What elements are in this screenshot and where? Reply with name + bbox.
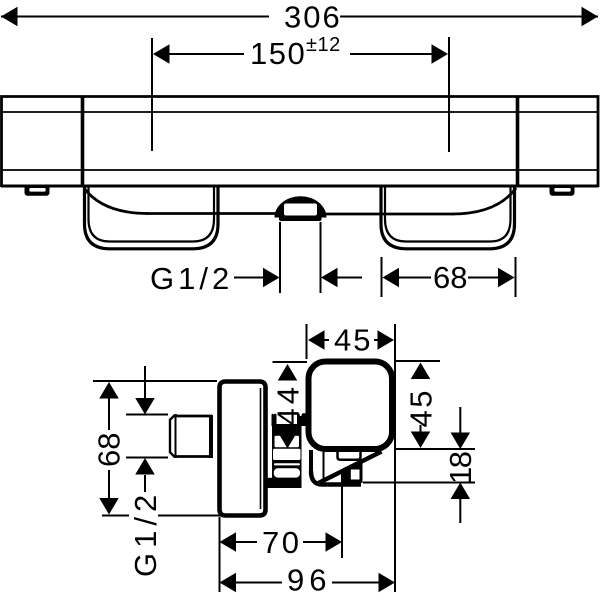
valve nut right column [297,413,307,426]
stub thin band [274,463,300,465]
hose outlet stub [272,424,302,488]
union nut left outer [85,187,219,249]
svg-text:68: 68 [92,433,127,467]
escutcheon [220,382,266,516]
svg-text:45: 45 [404,388,439,427]
svg-text:G1/2: G1/2 [128,490,163,577]
dim 68 front [383,268,515,288]
dim 96 [220,573,396,593]
union nut right inner [385,187,511,242]
under-body line right [325,213,454,216]
divider right end cap [516,97,520,187]
extension line wall [219,517,221,592]
grip bottom bar [311,471,361,485]
nipple body [175,416,212,457]
union nut left inner [89,187,215,242]
stub window 2 [273,449,301,460]
dim 70 [220,532,343,552]
dim G1/2 front leader [234,268,362,288]
svg-text:306: 306 [284,0,342,35]
nipple flange [209,415,213,458]
extension line union right right [515,257,517,297]
body inner line upper [1,111,598,113]
extension line escutcheon top [93,380,217,382]
escutcheon face line [260,388,262,509]
outlet bar [279,216,322,222]
hose outlet stub foot [268,478,274,488]
extension line 45 top left [306,324,308,359]
svg-text:68: 68 [433,260,467,295]
grip white base [309,450,384,487]
dim 45 right [411,363,431,449]
extension line union right left [381,257,383,297]
stub window 1 [275,436,300,447]
extension line escutcheon bottom [102,515,129,517]
extension line left 150 [151,38,153,151]
extension line 70 [341,486,343,558]
extension line nipple top [126,414,168,416]
dim 306 line [1,7,598,27]
dim 68 side [99,382,119,515]
svg-text:70: 70 [262,525,301,560]
grip diagonal [319,452,382,484]
extension line nipple bottom [126,457,168,459]
tab right clip [550,185,575,196]
under-body sweep curve right [452,188,516,214]
svg-text:44: 44 [271,383,306,425]
nipple cap inner line [175,416,177,458]
svg-text:±12: ±12 [306,34,341,56]
extension line outlet left [279,222,281,293]
dim 44 [278,364,298,449]
stub window 3 [274,468,300,477]
extension line 18 bottom [363,482,475,484]
extension line outlet right [320,222,322,293]
extension line long right [394,324,396,592]
grip dark wedge [341,461,363,483]
dim G1/2 side arrows [135,366,155,492]
dim 45 top [308,330,394,350]
svg-text:150: 150 [250,36,306,71]
body outline front view [1,97,599,188]
extension line right 150 [448,37,450,152]
svg-text:G1/2: G1/2 [150,261,233,296]
tab left clip [25,185,50,196]
valve nut left column [272,414,277,426]
under-body line left [146,212,276,215]
divider left end cap [81,97,85,187]
outlet dome window [284,204,317,216]
nipple thread cap [170,415,177,457]
outlet dome [275,196,327,217]
body inner line lower [1,169,598,171]
grip notch [338,450,361,460]
union nut right outer [381,187,515,249]
extension line knob top left [273,361,308,363]
svg-text:45: 45 [334,323,372,358]
grip facet line [323,450,325,480]
extension line knob top right [396,360,440,362]
grip left edge [309,450,313,473]
svg-text:18: 18 [443,452,478,484]
svg-text:96: 96 [287,563,331,598]
dim 150 line [153,44,448,64]
knob [309,362,393,450]
grip stop button [351,470,360,480]
dim 18 [451,407,471,523]
under-body sweep curve left [84,188,148,214]
extension line 45 bottom [396,448,475,450]
